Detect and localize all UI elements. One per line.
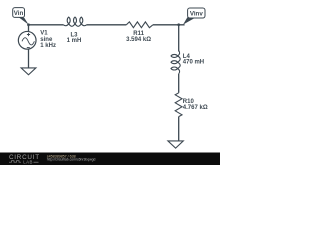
inductor L4 xyxy=(171,51,180,74)
resistor R11 xyxy=(126,22,153,28)
svg-text:LAB: LAB xyxy=(23,160,33,165)
flag Vin box xyxy=(13,8,25,18)
svg-text:1 mH: 1 mH xyxy=(67,38,82,44)
inductor L3 xyxy=(64,17,87,26)
resistor R10 xyxy=(175,93,182,117)
wire: R10 to ground G2 xyxy=(178,117,180,141)
ground G2 xyxy=(168,141,183,148)
CircuitLab logo trailing line xyxy=(34,161,39,163)
V1 plus sign xyxy=(27,33,30,36)
wire: node B down to L4 xyxy=(178,25,180,52)
CircuitLab logo waveform xyxy=(9,161,21,163)
V1 minus sign xyxy=(27,47,30,49)
node B junction dot xyxy=(177,23,180,26)
flag Vinv box xyxy=(188,8,205,18)
wire: R11 to node B and flag stub xyxy=(153,24,185,26)
svg-text:470 mH: 470 mH xyxy=(183,60,204,66)
flag Vinv tail xyxy=(183,17,194,24)
wire: L3 to R11 xyxy=(87,24,127,26)
ground G1 xyxy=(21,68,36,75)
svg-text:V1: V1 xyxy=(40,31,48,37)
svg-text:Vin: Vin xyxy=(14,10,24,17)
V1 sine symbol xyxy=(22,38,34,45)
svg-text:1 kHz: 1 kHz xyxy=(40,43,56,49)
flag Vin tail xyxy=(18,16,29,24)
wire: node A to L3 left terminal xyxy=(29,24,64,26)
node A junction dot xyxy=(27,23,30,26)
wire: node A down to V1 xyxy=(28,25,30,32)
svg-text:4.767 kΩ: 4.767 kΩ xyxy=(183,105,208,111)
voltage source V1 circle xyxy=(18,31,36,49)
svg-text:3.594 kΩ: 3.594 kΩ xyxy=(126,37,151,43)
wire: V1 to ground G1 xyxy=(28,49,30,68)
wire: L4 to R10 xyxy=(178,74,180,93)
svg-text:Vinv: Vinv xyxy=(190,11,204,18)
watermark bar xyxy=(0,153,220,166)
svg-text:http://circuitlab.com/c6hr3bqw: http://circuitlab.com/c6hr3bqwgd xyxy=(47,157,96,161)
